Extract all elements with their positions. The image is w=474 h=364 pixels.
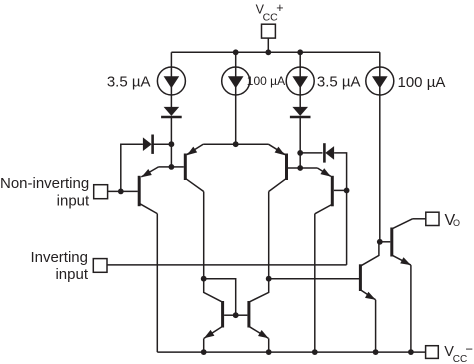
wire Q8 emitter to rail: [375, 300, 377, 352]
transistor Q3 (diff pair right PNP): [268, 144, 286, 191]
wire Q2 emitter to tail node: [203, 143, 236, 145]
node rail-Q7 emitter: [408, 349, 414, 355]
wire I4 branch (rail down to Q7 base node): [379, 52, 381, 242]
wire D4 cathode down to Q3 base node: [299, 117, 301, 168]
wire D3 anode to Q4 base column: [334, 153, 347, 265]
terminal inverting input: [93, 259, 107, 273]
wire non-inverting input to Q1 base: [108, 190, 138, 192]
wire Q3 base to node: [288, 167, 300, 169]
transistor Q2 (diff pair left PNP): [185, 144, 203, 191]
wire node B to Q2 base: [171, 166, 183, 168]
node rail-Q4 collector: [312, 349, 318, 355]
transistor Q6 (mirror right NPN): [236, 279, 269, 339]
wire Q1 collector down to negative rail: [156, 214, 158, 353]
diode D4: [290, 107, 311, 117]
wire Q3 emitter to tail node: [236, 143, 269, 145]
node non-inverting input junction: [118, 189, 124, 195]
node tail (emitters of Q2,Q3): [233, 141, 239, 147]
wire mirror output to Q8 base: [269, 278, 359, 280]
svg-text:input: input: [55, 266, 88, 283]
svg-text:3.5 µA: 3.5 µA: [107, 74, 151, 91]
wire Q4 base: [334, 189, 347, 191]
wire Q1 emitter to node B: [159, 166, 172, 168]
node D3 cathode junction: [297, 150, 303, 156]
current source I1 3.5uA: [157, 67, 185, 95]
node B: [169, 164, 175, 170]
svg-text:100 µA: 100 µA: [398, 74, 446, 91]
wire input node up to D2 anode: [121, 144, 143, 191]
svg-text:+: +: [276, 1, 283, 15]
transistor Q8 (output NPN lower): [360, 242, 379, 300]
transistor Q5 (mirror left NPN): [204, 279, 236, 339]
wire bottom supply rail: [157, 351, 425, 353]
wire Q7 collector to VO terminal: [413, 218, 426, 220]
svg-text:100 µA: 100 µA: [247, 74, 285, 88]
wire D1 cathode to node B: [170, 117, 172, 167]
node mirror right collector: [266, 276, 272, 282]
label VCC+: [256, 1, 284, 23]
svg-text:input: input: [57, 193, 90, 210]
diode D1: [161, 107, 182, 117]
svg-text:−: −: [465, 341, 473, 356]
wire D2 cathode to node A: [153, 143, 172, 145]
node rail-I2 junction: [233, 49, 239, 55]
current source I4 100uA: [366, 67, 394, 95]
terminal VCC+: [262, 24, 276, 38]
wire D3 cathode link: [300, 152, 322, 154]
terminal VCC-: [426, 346, 439, 359]
wire I3 branch (rail to diode D4): [299, 52, 301, 107]
current source I2 100uA: [222, 67, 250, 95]
node VCC+ rail junction: [265, 49, 271, 55]
diode D2: [143, 135, 153, 154]
wire VCC+ stem: [267, 38, 269, 52]
wire top supply rail: [171, 51, 379, 53]
node rail-Q6 emitter: [266, 349, 272, 355]
svg-text:Non-inverting: Non-inverting: [0, 175, 89, 192]
node rail-I3 junction: [297, 49, 303, 55]
terminal VO: [426, 212, 439, 225]
svg-text:Inverting: Inverting: [30, 249, 88, 266]
wire mirror base tie: [204, 279, 236, 316]
transistor Q7 (output NPN upper): [380, 219, 413, 265]
wire Q3 collector down to mirror: [268, 192, 270, 279]
node mirror left collector: [201, 276, 207, 282]
terminal non-inverting input: [94, 185, 108, 199]
wire Q4 emitter from node: [300, 167, 317, 169]
label VCC-: [444, 341, 473, 364]
svg-text:3.5 µA: 3.5 µA: [317, 74, 361, 91]
transistor Q1 (input PNP, non-inverting): [139, 167, 158, 214]
node rail-Q5 emitter: [201, 349, 207, 355]
node A: [169, 141, 175, 147]
wire inverting input to Q4 base column: [107, 264, 347, 266]
wire Q6 emitter to rail: [268, 338, 270, 352]
label Non-inverting input: [0, 175, 90, 210]
wire Q2 collector down to mirror: [203, 192, 205, 279]
node mirror base junction: [233, 312, 239, 318]
wire Q5 emitter to rail: [203, 338, 205, 352]
node Q3 base / Q4 emitter: [297, 165, 303, 171]
node Q7 base / Q8 collector: [377, 239, 383, 245]
wire I2 branch (rail to emitters node): [235, 52, 237, 144]
diode D3: [324, 143, 334, 162]
node rail-Q8 emitter: [373, 349, 379, 355]
wire Q4 collector down to negative rail: [314, 214, 316, 352]
svg-text:O: O: [453, 218, 460, 228]
node Q4 base junction: [344, 188, 350, 194]
wire Q7 emitter to rail: [410, 265, 412, 352]
label VO: [445, 212, 461, 229]
label Inverting input: [30, 249, 88, 283]
transistor Q4 (input PNP, inverting): [315, 168, 333, 214]
wire I1 branch (rail to diode D1): [170, 52, 172, 107]
current source I3 3.5uA: [286, 67, 314, 95]
